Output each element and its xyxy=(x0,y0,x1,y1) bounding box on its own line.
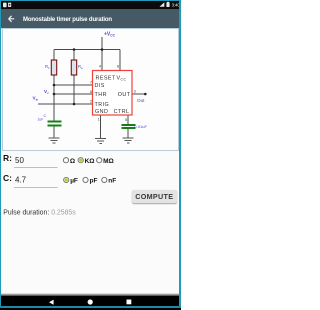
svg-text:C: C xyxy=(44,114,47,118)
svg-text:Vc: Vc xyxy=(44,89,49,95)
svg-text:THR: THR xyxy=(95,92,107,98)
ground left xyxy=(49,138,60,143)
capacitor C plates xyxy=(48,122,62,126)
wire pin8 drop xyxy=(119,50,121,71)
radio pF xyxy=(83,177,88,182)
op IC 555 box U1 xyxy=(93,71,133,116)
svg-text:6: 6 xyxy=(90,90,92,94)
radio uF selected xyxy=(64,177,69,182)
node junction THR xyxy=(53,93,56,96)
appbar back arrow xyxy=(9,16,15,22)
svg-text:50: 50 xyxy=(15,156,24,165)
wire OUT pin3 xyxy=(132,93,145,95)
svg-text:OUT: OUT xyxy=(118,92,131,98)
node Out terminal xyxy=(144,93,147,96)
svg-text:GND: GND xyxy=(95,109,108,115)
app bar xyxy=(0,9,181,28)
compute button xyxy=(132,190,177,203)
teal frame xyxy=(0,0,181,1)
resistor R1 xyxy=(51,60,56,75)
svg-text:Ra: Ra xyxy=(78,64,83,70)
capacitor C5 plates 0.01uF xyxy=(121,125,135,128)
status icon signal xyxy=(160,2,165,7)
nav bar shadow xyxy=(0,293,181,297)
radio ohm xyxy=(63,158,68,163)
wire pin1 GND drop xyxy=(100,115,102,138)
svg-text:2: 2 xyxy=(90,100,92,104)
app bar shadow xyxy=(0,28,181,30)
wire top rail Vcc xyxy=(54,49,120,51)
svg-text:Pulse duration: 0.2585s: Pulse duration: 0.2585s xyxy=(3,210,76,217)
radio kilo-ohm selected xyxy=(78,158,83,163)
status bar xyxy=(0,1,181,9)
svg-text:KΩ: KΩ xyxy=(85,158,95,165)
svg-text:4: 4 xyxy=(99,65,101,69)
status icon notification 2 xyxy=(8,3,11,7)
svg-text:C:: C: xyxy=(3,173,12,183)
node junction TRIG-Ra xyxy=(73,103,76,106)
nav back triangle xyxy=(49,300,54,305)
svg-text:1: 1 xyxy=(98,118,100,122)
svg-text:R1: R1 xyxy=(45,64,50,70)
wire Ra bottom lead xyxy=(73,75,75,104)
wire R1 bottom lead to cap C xyxy=(53,75,55,121)
node junction rail-Ra xyxy=(73,48,76,51)
wire pin5 CTRL drop xyxy=(127,115,129,125)
svg-text:TRIG: TRIG xyxy=(95,102,110,108)
wire TRIG pin2 Vin xyxy=(38,103,93,105)
svg-text:Vin: Vin xyxy=(33,96,39,102)
nav recents square xyxy=(127,300,132,305)
svg-text:Ω: Ω xyxy=(70,158,75,165)
svg-text:7: 7 xyxy=(90,81,92,85)
nav home circle xyxy=(88,299,93,304)
svg-text:RESET: RESET xyxy=(96,76,116,82)
wire THR pin6 xyxy=(54,93,93,95)
radio mega-ohm xyxy=(97,158,102,163)
svg-text:8: 8 xyxy=(117,65,119,69)
svg-text:+VCC: +VCC xyxy=(104,32,116,38)
wire R1 top lead xyxy=(53,50,55,61)
nav bar xyxy=(0,296,181,310)
svg-text:Monostable timer pulse duratio: Monostable timer pulse duration xyxy=(23,17,112,23)
input C underline xyxy=(14,186,58,188)
svg-text:pF: pF xyxy=(90,178,98,185)
wire DIS pin7 xyxy=(54,84,93,86)
ground center xyxy=(95,139,106,144)
wire Vcc stub xyxy=(101,37,103,50)
wire pin4 drop xyxy=(101,50,103,71)
svg-text:4.7: 4.7 xyxy=(15,176,27,185)
status icon notification 1 xyxy=(3,3,7,8)
wire Ra top lead xyxy=(73,50,75,61)
svg-text:R:: R: xyxy=(3,153,12,163)
wire cap C to ground xyxy=(53,126,55,138)
svg-text:5: 5 xyxy=(125,118,127,122)
svg-text:Out: Out xyxy=(137,98,145,103)
input R underline xyxy=(14,167,58,169)
node junction DIS xyxy=(53,84,56,87)
svg-text:MΩ: MΩ xyxy=(103,158,114,165)
svg-text:3: 3 xyxy=(134,90,136,94)
node junction rail-Vcc xyxy=(101,48,104,51)
wire cap5 to ground xyxy=(127,128,129,138)
svg-text:1uF: 1uF xyxy=(38,118,44,122)
svg-text:CTRL: CTRL xyxy=(114,109,130,115)
svg-text:DIS: DIS xyxy=(95,83,105,89)
schematic panel xyxy=(2,28,180,151)
svg-text:0.01uF: 0.01uF xyxy=(135,124,148,129)
resistor Ra xyxy=(71,60,76,75)
svg-text:nF: nF xyxy=(108,178,116,185)
radio nF xyxy=(102,177,107,182)
svg-text:µF: µF xyxy=(70,178,78,185)
status icon battery xyxy=(166,2,169,7)
ground right xyxy=(123,138,134,143)
